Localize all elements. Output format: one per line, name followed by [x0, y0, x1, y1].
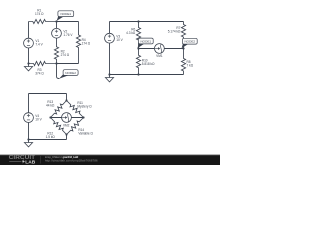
junction: [137, 20, 139, 22]
svg-text:374 Ω: 374 Ω: [35, 71, 44, 75]
junction: [65, 133, 67, 135]
svg-text:5.174 kΩ: 5.174 kΩ: [168, 29, 181, 33]
svg-text:5.818 kΩ: 5.818 kΩ: [142, 62, 155, 66]
voltage source V1: [24, 22, 34, 64]
ground: [24, 140, 32, 147]
voltage source V4: [24, 94, 34, 140]
voltage source V3: [105, 22, 115, 75]
label R8 7 kohm: [187, 60, 194, 67]
voltmeter VM1: [155, 44, 165, 54]
wire: [139, 48, 184, 50]
wire: [66, 135, 68, 140]
label R3 374 ohm: [35, 68, 44, 75]
label R1 174 ohm: [35, 8, 44, 15]
label R4 174 ohm: [82, 38, 91, 45]
node NODE1 flag: [57, 11, 74, 21]
resistor R14: [67, 118, 84, 135]
label R12 1.5 kohm: [46, 131, 56, 138]
label R6 4.3 kohm: [126, 27, 136, 34]
junction: [65, 99, 67, 101]
svg-text:NODE2: NODE2: [65, 71, 76, 75]
svg-text:1.5 kΩ: 1.5 kΩ: [46, 135, 56, 139]
svg-text:44 kΩ: 44 kΩ: [46, 103, 55, 107]
label V1 7.4 V: [35, 39, 43, 46]
node NODE1 junction: [55, 20, 57, 22]
junction: [27, 62, 29, 64]
junction: [49, 116, 51, 118]
junction: [108, 73, 110, 75]
svg-text:VM2: VM2: [63, 123, 70, 127]
wire: [110, 21, 184, 23]
ground: [24, 64, 32, 71]
svg-text:274 Ω: 274 Ω: [61, 53, 70, 57]
label R2 274 ohm: [61, 49, 70, 56]
svg-text:Mystery Ω: Mystery Ω: [77, 104, 92, 108]
label R7 5.174 kohm: [168, 26, 181, 33]
wire: [29, 93, 67, 95]
junction: [137, 47, 139, 49]
svg-text:NODE1: NODE1: [140, 39, 151, 43]
resistor R13: [51, 101, 67, 118]
svg-text:7 kΩ: 7 kΩ: [187, 63, 194, 67]
wire: [29, 139, 67, 141]
resistor R7: [181, 22, 185, 49]
svg-text:Variable Ω: Variable Ω: [78, 131, 93, 135]
resistor R2: [54, 38, 58, 63]
svg-text:http://circuitlab.com/cmp28ab7: http://circuitlab.com/cmp28ab7668786: [45, 158, 98, 162]
node NODE2 flag: [59, 70, 78, 79]
resistor R3: [29, 61, 57, 65]
svg-text:1.76 V: 1.76 V: [63, 33, 73, 37]
svg-text:174 Ω: 174 Ω: [82, 42, 91, 46]
svg-text:7.4 V: 7.4 V: [35, 42, 43, 46]
label VM1: [156, 54, 163, 58]
svg-text:174 Ω: 174 Ω: [35, 12, 44, 16]
resistor R11: [67, 101, 84, 118]
wire: [57, 64, 60, 79]
svg-text:LAB: LAB: [25, 159, 36, 164]
label R10 5.818 kohm: [142, 58, 155, 65]
wire: [110, 74, 184, 76]
resistor R10: [136, 49, 140, 75]
label V4 10 V: [35, 114, 42, 121]
voltage source V2: [52, 22, 62, 39]
junction: [27, 138, 29, 140]
label R14 Variable ohm: [78, 128, 93, 135]
resistor R4: [76, 22, 80, 64]
resistor R1: [29, 19, 57, 23]
svg-text:10 V: 10 V: [116, 38, 123, 42]
svg-text:NODE1: NODE1: [60, 12, 71, 16]
junction: [182, 47, 184, 49]
wire: [51, 117, 84, 119]
resistor R8: [181, 49, 185, 75]
label R11 Mystery ohm: [77, 101, 92, 108]
voltmeter VM2: [62, 113, 72, 123]
svg-text:10 V: 10 V: [35, 117, 42, 121]
junction: [55, 62, 57, 64]
label V2 1.76 V: [63, 30, 73, 37]
ground: [105, 75, 113, 82]
label R13 44 kohm: [46, 100, 55, 107]
svg-text:4.3 kΩ: 4.3 kΩ: [126, 31, 136, 35]
junction: [137, 73, 139, 75]
svg-text:VM1: VM1: [156, 54, 163, 58]
svg-text:NODE2: NODE2: [184, 40, 195, 44]
junction: [82, 116, 84, 118]
label V3 10 V: [116, 35, 123, 42]
wire: [57, 63, 79, 65]
footer bar: [0, 155, 220, 166]
node NODE1 flag: [137, 38, 153, 48]
resistor R12: [51, 118, 67, 135]
node NODE2 flag: [182, 38, 198, 48]
label VM2: [63, 123, 70, 127]
resistor R6: [136, 22, 140, 49]
wire: [66, 94, 68, 101]
wire: [57, 21, 79, 23]
